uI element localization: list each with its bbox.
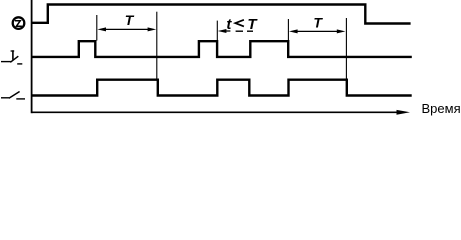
dimension arrow t<T (partial, dashed) — [218, 29, 227, 33]
contact symbol K1 lead — [1, 61, 11, 63]
generator symbol inner meander — [15, 21, 22, 27]
label < (drawn) — [235, 20, 244, 27]
vertical signal axis — [31, 0, 33, 113]
svg-text:T: T — [313, 15, 323, 31]
contact symbol K2 fixed contact — [16, 98, 25, 100]
tick mark A — [96, 15, 98, 41]
time axis — [32, 111, 399, 113]
contact symbol K2 blade — [9, 92, 20, 99]
svg-text:T: T — [125, 12, 135, 28]
waveform 2 (coil pulses) — [32, 41, 412, 57]
contact symbol K1 fixed contact — [17, 63, 22, 65]
generator symbol G1 — [13, 17, 25, 29]
waveform 1 (generator output) — [32, 5, 411, 24]
tick mark E — [345, 18, 347, 79]
contact symbol K1 tee bar — [12, 50, 14, 60]
contact symbol K2 lead — [1, 97, 9, 99]
tick mark B — [156, 12, 158, 79]
svg-text:Время: Время — [422, 101, 461, 116]
dimension arrow T (first period) — [104, 28, 149, 30]
time axis arrowhead — [397, 110, 411, 115]
contact symbol K1 blade — [10, 56, 18, 62]
dimension arrow T (second period) — [296, 30, 339, 32]
waveform 3 (delayed contact) — [32, 80, 412, 96]
tick mark C — [216, 21, 218, 41]
tick mark D — [287, 19, 289, 41]
